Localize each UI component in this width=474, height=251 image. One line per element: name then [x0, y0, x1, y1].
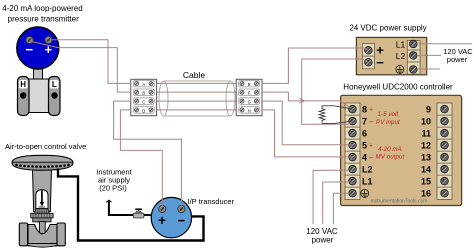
svg-text:power: power [447, 55, 468, 64]
valve stem to body [39, 222, 45, 234]
svg-text:15: 15 [421, 177, 431, 187]
PS L2 screw [410, 52, 417, 59]
flange bolt left [20, 92, 26, 98]
cable wire D-H [157, 109, 237, 111]
svg-text:10: 10 [421, 117, 431, 127]
terminal 15 screw [441, 177, 448, 184]
svg-text:6: 6 [362, 129, 367, 139]
wire: controller gnd to 120VAC [333, 193, 349, 224]
svg-text:24 VDC power supply: 24 VDC power supply [349, 24, 426, 33]
right body flange [57, 223, 65, 246]
svg-text:G: G [248, 100, 251, 105]
svg-text:H: H [248, 108, 251, 113]
terminal 13 screw [441, 153, 448, 160]
wire: terminal G to controller terminal 5 [262, 101, 353, 145]
transmitter terminal + [45, 36, 52, 43]
terminal 9 screw [441, 105, 448, 112]
TB1 screws [135, 82, 139, 86]
pneumatic tubing valve to I/P [58, 169, 204, 241]
wire: terminal C to I/P - [114, 101, 182, 206]
air supply line with arrow [109, 201, 153, 216]
svg-text:14: 14 [421, 165, 431, 175]
svg-text:B: B [142, 91, 145, 96]
terminal 4 screw [349, 153, 356, 160]
svg-text:H: H [20, 80, 26, 89]
resistor R (250 ohm) [319, 106, 352, 124]
I/P terminal - [178, 205, 185, 212]
svg-text:−: − [177, 213, 185, 228]
svg-text:−: − [376, 55, 384, 70]
terminal 11 screw [441, 129, 448, 136]
wire: transmitter + to terminal A [52, 40, 131, 84]
stem with down arrow [41, 190, 43, 202]
control valve [12, 155, 73, 247]
svg-text:Honeywell UDC2000 controller: Honeywell UDC2000 controller [343, 83, 453, 92]
svg-text:9: 9 [426, 105, 431, 115]
svg-text:PV input: PV input [376, 119, 400, 126]
wire: PS L1 to 120VAC [417, 43, 472, 45]
bonnet / packing [35, 209, 50, 214]
terminal 14 screw [441, 165, 448, 172]
PS ground screw [410, 66, 417, 73]
svg-text:power: power [312, 236, 334, 245]
svg-text:4: 4 [362, 153, 367, 163]
pressure transmitter body [18, 64, 61, 116]
label L [50, 80, 59, 89]
svg-text:(20 PSI): (20 PSI) [99, 184, 127, 193]
wire: PS ground to 120VAC [417, 68, 440, 70]
svg-text:L1: L1 [396, 40, 406, 50]
svg-text:F: F [248, 91, 251, 96]
svg-text:I/P transducer: I/P transducer [188, 197, 235, 206]
svg-text:1-5 volt: 1-5 volt [378, 111, 399, 118]
svg-text:D: D [142, 108, 145, 113]
wire: terminal D to I/P + [120, 110, 162, 206]
svg-text:8: 8 [362, 105, 367, 115]
actuator dome [12, 155, 73, 170]
wire: PS L2 to 120VAC [417, 54, 441, 56]
terminal L1 screw [349, 177, 356, 184]
right terminal column [437, 103, 452, 199]
yoke [33, 169, 52, 212]
cable wire B-F [157, 91, 237, 93]
svg-text:13: 13 [421, 153, 431, 163]
terminal 12 screw [441, 141, 448, 148]
svg-text:11: 11 [421, 129, 431, 139]
svg-text:−: − [369, 118, 374, 127]
24 VDC power supply [356, 37, 426, 74]
terminal 5 screw [349, 141, 356, 148]
wire: 24VDC - to controller terminal 7 [302, 59, 369, 124]
svg-text:MV output: MV output [376, 154, 405, 161]
svg-text:L2: L2 [362, 165, 373, 175]
svg-text:InstrumentationTools.com: InstrumentationTools.com [371, 199, 428, 205]
svg-text:C: C [142, 100, 145, 105]
svg-text:+: + [45, 42, 53, 57]
svg-text:4-20 mA loop-powered: 4-20 mA loop-powered [2, 4, 83, 13]
wire: transmitter - to terminal B [32, 42, 132, 93]
terminal 16 screw [441, 190, 448, 197]
svg-text:+: + [369, 107, 373, 114]
PS L1 screw [410, 40, 417, 47]
svg-text:E: E [248, 82, 251, 87]
svg-text:pressure transmitter: pressure transmitter [8, 15, 79, 24]
I/P transducer [151, 197, 191, 237]
terminal 6 screw [349, 129, 356, 136]
valve body [28, 225, 57, 246]
svg-text:−: − [26, 42, 34, 57]
svg-text:4-20 mA: 4-20 mA [378, 146, 402, 153]
svg-text:7: 7 [362, 117, 367, 127]
controller ground symbol [361, 189, 369, 197]
terminal 7 screw [349, 117, 356, 124]
wire: terminal E to 24VDC + [262, 48, 369, 83]
wire: controller L2 to 120VAC [313, 170, 349, 224]
cable sheath [159, 81, 235, 116]
terminal strip TB1 (A-D) [131, 79, 157, 115]
wire: controller L1 to 120VAC [323, 182, 349, 224]
terminal 8 screw [349, 105, 356, 112]
PS ground symbol [396, 65, 404, 73]
flange bolt right [51, 92, 57, 98]
svg-text:5: 5 [362, 141, 367, 151]
wire: terminal H to controller terminal 4 [262, 110, 353, 157]
svg-text:−: − [369, 154, 374, 163]
travel indicator window [36, 190, 48, 209]
left terminal column [345, 103, 360, 199]
svg-text:A: A [142, 82, 145, 87]
left body flange [19, 223, 27, 246]
cable wire C-G [157, 100, 237, 102]
svg-text:+: + [158, 213, 166, 228]
hand valve on air supply [133, 208, 144, 218]
cable wire A-E [157, 82, 237, 84]
PS + screw [365, 47, 372, 54]
Honeywell UDC2000 controller [341, 95, 462, 205]
svg-text:L: L [52, 80, 57, 89]
svg-text:+: + [369, 143, 373, 150]
TB2 screws [240, 82, 244, 86]
svg-text:L1: L1 [362, 177, 373, 187]
terminal strip TB2 (E-H) [236, 79, 262, 115]
transmitter terminal - [26, 36, 33, 43]
svg-text:Air-to-open control valve: Air-to-open control valve [5, 142, 86, 151]
I/P terminal + [159, 205, 166, 212]
svg-text:L2: L2 [396, 51, 406, 61]
wire: terminal F to controller terminal 8 [262, 92, 353, 109]
pressure transmitter head (blue) [17, 27, 59, 69]
actuator bolts [15, 164, 70, 168]
terminal L2 screw [349, 165, 356, 172]
current direction arrow [300, 99, 305, 104]
svg-text:16: 16 [421, 189, 431, 199]
svg-text:12: 12 [421, 141, 431, 151]
label H [19, 80, 28, 89]
terminal gnd screw [349, 190, 356, 197]
PS - screw [365, 59, 372, 66]
terminal 10 screw [441, 117, 448, 124]
svg-text:Cable: Cable [183, 70, 205, 80]
